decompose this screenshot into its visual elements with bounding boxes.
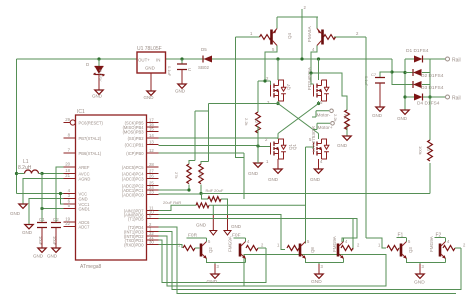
wire U1 ground stub <box>150 73 152 91</box>
wire H-bridge cross <box>278 101 319 139</box>
svg-text:12: 12 <box>149 148 154 153</box>
svg-text:(RXD)PD0: (RXD)PD0 <box>124 242 144 247</box>
svg-text:27k: 27k <box>174 172 179 178</box>
pin 22 ADC7 <box>64 221 91 229</box>
transistor upper right PMOS of FDS4935A <box>307 66 329 105</box>
svg-text:10uF: 10uF <box>38 236 43 246</box>
svg-text:2.2k: 2.2k <box>333 114 338 122</box>
svg-text:GND: GND <box>175 89 186 94</box>
wire gate upper-left chain with R2 <box>258 81 271 163</box>
ground below zener <box>95 90 103 94</box>
pin 11 (AIN1)PD7 <box>124 205 159 213</box>
svg-text:GND: GND <box>92 94 103 99</box>
pin 7 PB6(XTAL1) <box>64 148 102 156</box>
svg-text:13: 13 <box>149 139 154 144</box>
svg-text:4V7SV: 4V7SV <box>98 69 103 82</box>
ground AGND branch <box>19 204 27 208</box>
transistor Q1 lower left NMOS <box>265 137 293 164</box>
ground below lower-left MOSFET <box>277 159 279 169</box>
node main net drain taps <box>276 57 279 60</box>
svg-text:2.2k: 2.2k <box>244 118 249 126</box>
wire RdR right to gate column and GND stem <box>209 205 306 214</box>
svg-text:Q7: Q7 <box>286 83 291 90</box>
svg-text:GND: GND <box>311 279 322 285</box>
resistor R1 2.2k <box>345 110 350 129</box>
pin 16 (MISO)PB4 <box>123 122 159 130</box>
svg-text:Q8: Q8 <box>310 247 315 253</box>
transistor Q3 dual NPN FMG9A <box>378 235 466 269</box>
node L1 right <box>40 172 43 175</box>
pin 27 (ADC4)PC4 <box>122 168 159 176</box>
pin 13 (OC1)PB1 <box>125 139 159 147</box>
pin 28 (ADC5)PC5 <box>122 162 159 170</box>
svg-text:Q3: Q3 <box>408 247 413 253</box>
svg-text:10uF: 10uF <box>52 236 57 246</box>
zener diode D6 on input <box>97 57 100 60</box>
svg-text:27k: 27k <box>198 172 203 178</box>
wire sense tap to staircase <box>209 103 279 105</box>
ground below C2 <box>52 248 60 252</box>
wire pin14 net <box>159 137 279 139</box>
pin 23 (ADC0)PC0 <box>122 189 159 197</box>
svg-text:(ICP)PB0: (ICP)PB0 <box>126 151 144 156</box>
capacitor C1 <box>37 223 47 228</box>
svg-text:GND1: GND1 <box>79 206 91 211</box>
svg-text:C2: C2 <box>53 217 59 222</box>
svg-text:AGND: AGND <box>79 176 91 181</box>
pin 5 GND1 <box>64 203 91 211</box>
net label Motor+ <box>313 122 334 132</box>
pin 32 (INT0)PD2 <box>124 231 159 239</box>
svg-text:FMG9A: FMG9A <box>332 235 337 252</box>
resistor R3 100k <box>428 140 433 161</box>
svg-text:(ADC5)PC5: (ADC5)PC5 <box>122 165 144 170</box>
voltage regulator U1 78L05 <box>137 46 166 73</box>
node Q4 center on main net <box>300 57 303 60</box>
svg-text:R3: R3 <box>426 146 431 152</box>
svg-text:Q2: Q2 <box>208 247 213 253</box>
node net F1 <box>397 233 407 239</box>
ground below R2 <box>254 163 262 167</box>
wire VCC1 pin6 branch <box>61 194 64 205</box>
capacitor C2 <box>51 223 61 228</box>
wire pin2 chain return <box>159 227 457 294</box>
pin 8 PB7(XTAL2) <box>64 133 102 141</box>
svg-text:Q4: Q4 <box>287 32 292 39</box>
capacitor C7 <box>380 72 392 78</box>
svg-text:GND: GND <box>248 171 259 176</box>
svg-text:D2 D1FS4: D2 D1FS4 <box>421 73 444 79</box>
wire 27k B bottom to bus <box>200 185 202 194</box>
wire pin32 chain return <box>159 236 387 286</box>
ground below Q2 <box>207 264 220 285</box>
wire AGND pin21 <box>23 179 64 205</box>
transistor Q4 dual PNP FMA9A <box>250 5 359 81</box>
svg-text:Motor+: Motor+ <box>318 125 333 131</box>
svg-text:GND: GND <box>372 113 383 118</box>
diode D2 <box>405 72 430 74</box>
ground below Q3 <box>414 264 425 286</box>
pin 21 AGND <box>64 173 91 181</box>
svg-text:22: 22 <box>65 221 70 226</box>
svg-text:29: 29 <box>65 117 70 122</box>
svg-text:21: 21 <box>65 173 70 178</box>
svg-text:GND: GND <box>33 254 44 259</box>
pin 19 ADC6 <box>64 217 91 225</box>
ground below C1 <box>38 248 46 252</box>
svg-text:Q1: Q1 <box>292 143 297 150</box>
svg-text:IC1: IC1 <box>77 109 85 115</box>
svg-text:ADC7: ADC7 <box>79 224 91 229</box>
ground below R1 <box>343 136 351 140</box>
node feed junction <box>390 70 393 73</box>
pin 15 (MOSI)PB3 <box>123 126 159 134</box>
wire AVCC pin18 through L1 <box>17 173 64 175</box>
svg-text:RdF 20uF: RdF 20uF <box>206 188 224 193</box>
node bus junction <box>199 192 202 195</box>
svg-text:Rail: Rail <box>452 58 461 64</box>
svg-text:Rail: Rail <box>452 96 461 102</box>
svg-text:D1 D1FS4: D1 D1FS4 <box>406 48 429 54</box>
wire RdR left to pin11 <box>159 205 197 210</box>
svg-text:AREF: AREF <box>79 165 90 170</box>
inductor L1 <box>25 170 39 174</box>
wire base right of Q4 to bus <box>334 36 366 38</box>
pin 18 AVCC <box>64 168 90 176</box>
wire cap C1 column <box>41 174 43 223</box>
transistor Q8 dual NPN FMG9A <box>277 235 360 269</box>
svg-text:23: 23 <box>149 189 154 194</box>
wire right vertical bus <box>366 37 386 248</box>
ground ladder rail <box>401 110 409 114</box>
svg-text:D5: D5 <box>201 47 207 52</box>
node VCC branch dot <box>59 192 62 195</box>
svg-text:(ADC3)PC3: (ADC3)PC3 <box>122 176 144 181</box>
svg-text:C7: C7 <box>371 72 377 77</box>
ground pin3 branch <box>25 225 33 229</box>
svg-text:(MOSI)PB3: (MOSI)PB3 <box>123 129 145 134</box>
pin 26 (ADC3)PC3 <box>122 173 159 181</box>
wire rail tap bottom <box>430 96 445 98</box>
pin 12 (ICP)PB0 <box>126 148 158 156</box>
pin 3 GND <box>64 193 88 201</box>
node GND1 junction <box>40 207 43 210</box>
node U1 output cap junction <box>180 57 183 60</box>
svg-text:20uF RdR: 20uF RdR <box>163 200 181 205</box>
svg-text:100k: 100k <box>418 146 423 155</box>
svg-text:(OC1)PB1: (OC1)PB1 <box>125 142 145 147</box>
wire pin30 chain to F0R resistor <box>159 245 183 249</box>
svg-text:GND: GND <box>310 177 321 182</box>
svg-text:(ADC0)PC0: (ADC0)PC0 <box>122 192 144 197</box>
svg-text:GND: GND <box>22 230 33 235</box>
wire pin13 net to lower-left gate <box>159 146 271 147</box>
svg-text:GND: GND <box>231 224 242 229</box>
svg-text:14: 14 <box>149 133 154 138</box>
diode D5 SB02 on line <box>198 47 212 70</box>
ground below lower-right MOSFET <box>318 159 320 169</box>
pin 20 AREF <box>64 162 90 170</box>
svg-text:GND: GND <box>145 66 155 71</box>
wire pin31 chain return <box>159 240 267 283</box>
diode D3 <box>405 84 430 86</box>
pin 24 (ADC1)PC1 <box>122 185 159 193</box>
wire long bus pin23 to R3 column <box>159 193 431 196</box>
wire GND pin3 <box>29 199 64 225</box>
wire pin1 chain return <box>159 232 462 290</box>
svg-text:IN: IN <box>156 58 160 63</box>
svg-text:ATmega8: ATmega8 <box>80 264 102 270</box>
wire gate lower-right chain <box>306 147 314 244</box>
wire AREF pin20 to C2 <box>56 167 64 223</box>
svg-text:D4 D1FS4: D4 D1FS4 <box>417 101 440 107</box>
pin 9 (T1)PD5 <box>128 213 158 221</box>
capacitor C3 at regulator <box>181 59 183 64</box>
svg-text:GND: GND <box>10 211 21 216</box>
wire rail tap top <box>430 58 445 60</box>
wire drains of upper MOSFETs <box>278 59 319 80</box>
svg-text:PB7(XTAL2): PB7(XTAL2) <box>79 136 102 141</box>
ground from RdF <box>227 214 229 231</box>
node net F0F <box>232 233 246 239</box>
svg-text:C1: C1 <box>39 217 45 222</box>
wire R2 chain passes gate row <box>257 126 259 163</box>
svg-text:D3 D1FS4: D3 D1FS4 <box>421 85 444 91</box>
wire GND1 pin5 <box>42 208 64 210</box>
svg-text:FMA9A: FMA9A <box>307 25 312 42</box>
wire diode ladder left rail <box>404 59 406 110</box>
transistor Q7 upper left PMOS <box>266 76 291 105</box>
svg-text:GND: GND <box>207 279 218 285</box>
wire pin9 chain <box>159 219 358 250</box>
pin 25 (ADC2)PC2 <box>122 180 159 188</box>
wire staircase to sense resistors <box>189 104 209 165</box>
wire Q4 emitter bridge <box>277 9 318 59</box>
svg-text:GND: GND <box>47 254 58 259</box>
svg-text:(SS)PB2: (SS)PB2 <box>128 136 145 141</box>
svg-text:15: 15 <box>149 126 154 131</box>
svg-text:GND: GND <box>337 143 348 148</box>
svg-text:26: 26 <box>149 173 154 178</box>
pin 6 VCC1 <box>64 199 91 207</box>
wire RdF right to GND stem <box>221 199 228 214</box>
wire diode ladder right rail <box>429 59 431 194</box>
svg-text:PB6(XTAL1): PB6(XTAL1) <box>79 151 102 156</box>
transistor Q2 dual NPN FMG9A <box>178 235 266 269</box>
resistor 27k A <box>187 164 191 184</box>
resistor R2 2.2k <box>256 112 261 133</box>
wire VCC pin4 feed <box>17 193 64 195</box>
svg-text:20: 20 <box>65 162 70 167</box>
resistor 27k B <box>199 164 203 184</box>
node L1 left <box>15 172 18 175</box>
op-amp IC1 ATmega8 box <box>76 109 147 270</box>
pin 2 (T2)PD4 <box>128 222 158 230</box>
svg-text:OUT+: OUT+ <box>138 58 150 63</box>
pin 1 (INT1)PD3 <box>124 226 159 234</box>
wire 27k A bottom to pin24 net <box>159 185 190 191</box>
ground below U1 <box>147 91 155 95</box>
svg-text:GND: GND <box>196 223 207 228</box>
resistor RdR sense <box>196 203 209 208</box>
transistor lower right NMOS of uPA2753GR <box>292 125 329 164</box>
pin 14 (SS)PB2 <box>128 133 159 141</box>
resistor RdF sense with label <box>202 194 209 200</box>
svg-text:28: 28 <box>149 162 154 167</box>
svg-text:0.1uF: 0.1uF <box>167 66 172 77</box>
svg-text:U1 78L05F: U1 78L05F <box>137 46 162 52</box>
wire gate upper-right chain with R1 <box>311 73 347 136</box>
node net F0R <box>187 233 207 239</box>
wire base left of Q4 <box>236 36 260 38</box>
diode D1 <box>405 58 430 60</box>
wire main input net top <box>17 59 393 194</box>
svg-text:R1: R1 <box>343 114 348 120</box>
ground below C7 <box>376 107 384 111</box>
node upper sources <box>276 102 279 105</box>
svg-text:FMG9A: FMG9A <box>429 235 434 252</box>
svg-text:(T1)PD5: (T1)PD5 <box>128 216 144 221</box>
ground from RdR <box>212 214 214 231</box>
svg-text:GND: GND <box>414 280 425 286</box>
node net F2 <box>435 233 446 239</box>
svg-text:R2: R2 <box>254 118 259 124</box>
pin 30 (RXD)PD0 <box>124 239 158 247</box>
wire feed corner to ladder <box>392 59 405 85</box>
svg-text:GND: GND <box>397 116 408 121</box>
svg-text:GND: GND <box>79 196 88 201</box>
ground below C3 <box>178 84 186 88</box>
pin 4 VCC <box>64 188 88 196</box>
svg-text:SB02: SB02 <box>198 65 210 70</box>
net label Motor- <box>312 109 333 119</box>
svg-text:PC6(RESET): PC6(RESET) <box>79 120 104 125</box>
pin 29 PC6(RESET) <box>64 117 104 125</box>
svg-text:Motor-: Motor- <box>317 113 331 119</box>
pin 10 (AIN0)PD6 <box>124 209 159 217</box>
svg-text:GND: GND <box>144 95 155 100</box>
svg-text:8.2uH: 8.2uH <box>18 165 32 171</box>
pin 31 (TXD)PD1 <box>125 235 159 243</box>
wire vertical from Q4 left base <box>236 37 245 199</box>
pin 17 (SCK)PB5 <box>125 117 159 125</box>
svg-text:30: 30 <box>149 239 154 244</box>
wire pin12 net <box>159 152 245 154</box>
diode D4 <box>405 96 430 98</box>
wire pin10 chain <box>159 215 286 250</box>
svg-text:GND: GND <box>268 177 279 182</box>
ground below Q8 <box>311 264 323 285</box>
